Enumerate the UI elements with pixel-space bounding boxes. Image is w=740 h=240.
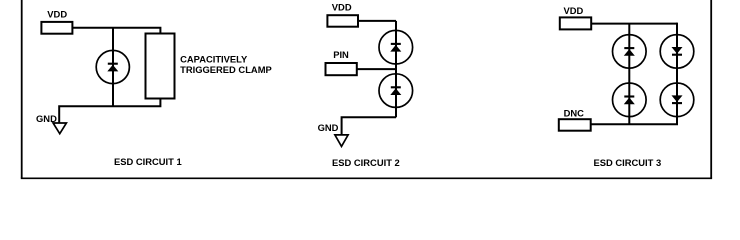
wire right branch vertical (676, 23, 678, 125)
diode D5 circle (left bottom) (613, 83, 647, 117)
diode D2 cathode bar (391, 43, 401, 45)
diode D1 cathode bar (108, 63, 118, 65)
svg-text:VDD: VDD (47, 9, 67, 20)
wire VDD to D2 top (358, 20, 396, 22)
diode D6 anode triangle (672, 47, 683, 54)
diode D6 cathode bar (672, 54, 682, 56)
svg-text:PIN: PIN (333, 49, 349, 60)
pad VDD (41, 22, 72, 34)
diode D3 anode triangle (390, 88, 401, 95)
diode D2 circle (379, 30, 413, 64)
wire left branch vertical (628, 24, 630, 125)
ground symbol 1 (53, 123, 66, 134)
wire VDD bus to clamp top (72, 28, 160, 35)
diode D7 cathode bar (672, 102, 682, 104)
svg-text:GND: GND (318, 122, 339, 133)
diode D6 circle (right top, reversed) (660, 35, 694, 69)
diode D7 circle (right bottom, reversed) (660, 83, 694, 117)
diode D5 cathode bar (624, 95, 634, 97)
capacitively triggered clamp box (146, 34, 175, 99)
wire DNC bottom bus (591, 123, 678, 125)
svg-text:ESD CIRCUIT 2: ESD CIRCUIT 2 (332, 157, 400, 168)
svg-text:GND: GND (36, 113, 57, 124)
wire D3 bottom to GND (342, 117, 396, 135)
svg-text:VDD: VDD (564, 5, 584, 16)
wire vertical through D2 D3 (395, 21, 397, 117)
diode D1 circle (96, 50, 129, 83)
diode D1 anode triangle (107, 65, 118, 72)
wire node drop through D1 (112, 28, 114, 106)
pad PIN (326, 63, 357, 75)
wire VDD top bus (591, 23, 677, 25)
wire PIN to node (357, 68, 396, 70)
pad DNC (559, 119, 591, 131)
svg-text:DNC: DNC (564, 107, 585, 118)
diode D2 anode triangle (390, 45, 401, 52)
border right (710, 0, 712, 178)
wire clamp bottom stub and GND bus (59, 99, 160, 124)
svg-text:ESD CIRCUIT 1: ESD CIRCUIT 1 (114, 156, 182, 167)
svg-text:VDD: VDD (332, 1, 352, 12)
diode D4 cathode bar (624, 47, 634, 49)
svg-text:CAPACITIVELY: CAPACITIVELY (180, 54, 248, 65)
border bottom (21, 177, 712, 179)
border left (21, 0, 23, 178)
diode D7 anode triangle (672, 95, 683, 102)
diode D3 circle (379, 74, 413, 108)
pad VDD 3 (560, 17, 591, 29)
svg-text:ESD CIRCUIT 3: ESD CIRCUIT 3 (593, 157, 661, 168)
diode D4 circle (left top) (613, 35, 647, 69)
ground symbol 2 (335, 135, 348, 147)
diode D5 anode triangle (624, 98, 635, 105)
svg-text:TRIGGERED CLAMP: TRIGGERED CLAMP (180, 64, 272, 75)
pad VDD 2 (327, 15, 358, 27)
diode D4 anode triangle (624, 49, 635, 56)
diode D3 cathode bar (391, 86, 401, 88)
